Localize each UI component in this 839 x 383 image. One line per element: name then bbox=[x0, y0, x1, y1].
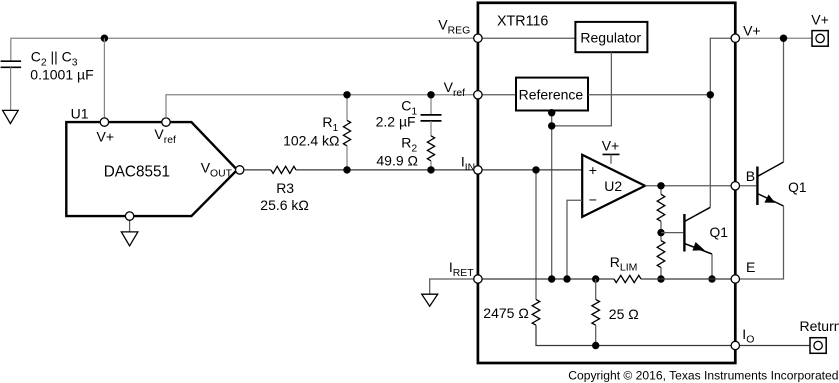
wire: RLIM to E pin bbox=[641, 278, 731, 280]
svg-text:+: + bbox=[589, 162, 597, 178]
resistor RLIM zigzag bbox=[614, 275, 641, 282]
transistor Q1 (internal) collector bbox=[684, 207, 710, 221]
svg-text:IRET: IRET bbox=[449, 259, 474, 279]
resistor R1 zigzag bbox=[343, 120, 350, 146]
junction: U2 output node bbox=[657, 182, 664, 189]
resistor 25 ohm zigzag bbox=[592, 299, 600, 325]
wire: DAC ground stub bbox=[129, 216, 131, 232]
wire: divider bottom lead bbox=[660, 268, 662, 279]
wire: R2 bottom lead bbox=[430, 161, 432, 170]
wire: C1 to R2 bbox=[430, 121, 432, 136]
resistor (lower divider) zigzag bbox=[657, 241, 665, 268]
pin circle: XTR116 IRET bbox=[474, 275, 482, 283]
svg-text:RLIM: RLIM bbox=[610, 254, 638, 274]
ground (below DAC8551) bbox=[121, 232, 138, 246]
op-amp U2 triangle bbox=[582, 155, 645, 217]
wire: 2475 ohm to IO line bbox=[536, 325, 731, 345]
svg-text:R3: R3 bbox=[276, 180, 294, 196]
wire: R1 top lead bbox=[346, 95, 348, 121]
junction: V+ rail / Q1 collector bbox=[780, 35, 787, 42]
wire: IIN pin to op amp + input bbox=[482, 169, 582, 171]
svg-text:DAC8551: DAC8551 bbox=[104, 164, 170, 181]
wire: R3 to XTR116 IIN pin bbox=[296, 169, 478, 171]
svg-text:2.2 µF: 2.2 µF bbox=[376, 113, 416, 129]
wire: R1 bottom lead bbox=[346, 146, 348, 170]
wire: Q1 emitter down and left to E pin bbox=[740, 206, 784, 279]
junction: IIN line / R2 bbox=[427, 166, 434, 173]
terminal V+ supply square bbox=[812, 31, 828, 47]
ground (IRET) bbox=[422, 294, 438, 306]
junction: IIN line / 2475 branch bbox=[532, 166, 539, 173]
terminal V+ supply circle bbox=[816, 34, 824, 42]
svg-text:C2 || C3: C2 || C3 bbox=[31, 49, 78, 69]
wire: V+ drop to DAC8551 bbox=[103, 38, 105, 118]
wire: C1 top lead bbox=[430, 95, 432, 115]
wire: IRET pin to RLIM bbox=[482, 278, 614, 280]
wire: C2/C3 to ground bbox=[10, 67, 12, 110]
pin circle: XTR116 IIN bbox=[474, 166, 482, 174]
resistor R3 zigzag bbox=[271, 166, 296, 173]
svg-text:49.9 Ω: 49.9 Ω bbox=[376, 152, 418, 168]
junction: IRET line / feedback bbox=[563, 275, 570, 282]
wire: V+ pin to supply terminal bbox=[740, 37, 812, 39]
junction: V+ branch / Reference line bbox=[707, 91, 714, 98]
svg-text:XTR116: XTR116 bbox=[497, 14, 548, 30]
terminal Return square bbox=[810, 338, 826, 354]
resistor R2 zigzag bbox=[427, 136, 434, 161]
transistor Q1 (internal) base bar bbox=[683, 214, 685, 252]
pin circle: DAC VOUT bbox=[236, 166, 244, 174]
wire: IRET pin to external ground bbox=[430, 279, 474, 294]
svg-text:VREG: VREG bbox=[438, 16, 470, 36]
svg-text:Q1: Q1 bbox=[710, 225, 728, 240]
block Regulator box bbox=[575, 22, 647, 52]
junction: Vref rail / C1 bbox=[427, 91, 434, 98]
junction: Q1 emitter / IRET line bbox=[708, 275, 715, 282]
wire: Reference right side to V+ branch bbox=[588, 94, 710, 96]
wire: VOUT to R3 bbox=[244, 169, 271, 171]
wire: Reference bottom down to IRET line bbox=[551, 111, 553, 280]
svg-text:V+: V+ bbox=[811, 11, 829, 27]
transistor Q1 (output) base bar bbox=[756, 167, 758, 206]
wire: U2 output to B pin bbox=[645, 185, 731, 187]
svg-text:R2: R2 bbox=[401, 134, 417, 154]
transistor Q1 (output) emitter bbox=[757, 194, 783, 207]
junction: Vref rail / R1 bbox=[343, 91, 350, 98]
svg-text:U1: U1 bbox=[71, 106, 89, 122]
svg-text:−: − bbox=[589, 192, 597, 208]
wire: divider middle bbox=[660, 221, 662, 240]
svg-text:25.6 kΩ: 25.6 kΩ bbox=[260, 197, 309, 213]
wire: 25 ohm top lead bbox=[595, 279, 597, 299]
svg-text:Regulator: Regulator bbox=[580, 30, 641, 46]
ground (below C2/C3) bbox=[3, 110, 19, 123]
wire: divider top lead bbox=[660, 186, 662, 195]
wire: 25 ohm bottom lead bbox=[595, 325, 597, 345]
pin circle: XTR116 B bbox=[731, 182, 739, 190]
svg-text:IO: IO bbox=[742, 326, 754, 346]
wire: B pin to Q1 base bbox=[740, 185, 757, 187]
svg-text:102.4 kΩ: 102.4 kΩ bbox=[283, 133, 339, 149]
wire: VREG pin to Regulator bbox=[482, 37, 575, 39]
op-amp supply bar bbox=[603, 153, 620, 155]
wire: Q1 emitter down to IRET line bbox=[711, 254, 713, 279]
svg-text:2475 Ω: 2475 Ω bbox=[483, 305, 529, 321]
svg-text:25 Ω: 25 Ω bbox=[609, 306, 639, 322]
wire: op-amp supply stub bbox=[610, 154, 612, 163]
wire: Regulator output down-left to reference node bbox=[552, 52, 612, 126]
junction: Reference bottom pin bbox=[548, 109, 555, 116]
wire: IIN branch down to 2475 ohm resistor bbox=[535, 170, 537, 300]
pin circle: XTR116 IO bbox=[731, 341, 739, 349]
pin circle: DAC GND bbox=[125, 212, 133, 220]
junction: IRET line / Reference drop bbox=[548, 275, 555, 282]
junction: IO line / 25 ohm bbox=[592, 342, 599, 349]
svg-text:Return: Return bbox=[800, 318, 839, 334]
junction: IRET line / 25 ohm bbox=[592, 275, 599, 282]
transistor Q1 (internal) emitter arrow bbox=[692, 242, 704, 251]
IC XTR116 outline box bbox=[478, 3, 735, 363]
junction: top rail / DAC V+ branch bbox=[101, 35, 108, 42]
svg-text:V+: V+ bbox=[97, 128, 115, 144]
transistor Q1 (output) emitter arrow bbox=[764, 195, 775, 203]
wire: Vref pin to Reference bbox=[482, 94, 516, 96]
junction: divider mid node bbox=[657, 229, 664, 236]
svg-text:Q1: Q1 bbox=[788, 180, 806, 195]
svg-text:0.1001 µF: 0.1001 µF bbox=[30, 67, 93, 83]
pin circle: XTR116 Vref bbox=[474, 91, 482, 99]
resistor 2475 ohm zigzag bbox=[532, 299, 540, 325]
pin circle: XTR116 VREG bbox=[474, 34, 482, 42]
capacitor C1 plates bbox=[421, 115, 442, 121]
wire: Q1 collector up to V+ rail bbox=[783, 38, 785, 162]
pin circle: XTR116 V+ bbox=[731, 34, 739, 42]
wire: divider mid to Q1 base bbox=[661, 232, 683, 234]
wire: op-amp - input feedback to IRET line bbox=[567, 200, 582, 279]
wire: VREG top rail from C2/C3 to XTR116 VREG pin bbox=[11, 38, 478, 61]
junction: Regulator wire / Reference drop bbox=[548, 122, 555, 129]
transistor Q1 (internal) emitter bbox=[684, 244, 712, 255]
transistor Q1 (output) collector bbox=[757, 162, 783, 177]
capacitor C2 || C3 bbox=[1, 61, 22, 67]
svg-text:V+: V+ bbox=[743, 23, 761, 39]
svg-text:U2: U2 bbox=[604, 178, 622, 194]
wire: V+ pin left and down to Q1 collector bbox=[710, 38, 731, 207]
svg-text:R1: R1 bbox=[322, 114, 338, 134]
pin circle: DAC V+ bbox=[100, 118, 108, 126]
junction: divider bottom / IRET line bbox=[657, 275, 664, 282]
wire: DAC Vref up and right to XTR116 Vref pin bbox=[166, 95, 478, 118]
block Reference box bbox=[516, 78, 588, 111]
svg-text:Reference: Reference bbox=[519, 86, 584, 102]
pin circle: XTR116 E bbox=[731, 275, 739, 283]
svg-text:B: B bbox=[746, 168, 755, 184]
pin circle: DAC Vref bbox=[162, 118, 170, 126]
svg-text:IIN: IIN bbox=[461, 154, 475, 174]
terminal Return circle bbox=[814, 341, 822, 349]
svg-text:Copyright © 2016, Texas Instru: Copyright © 2016, Texas Instruments Inco… bbox=[568, 368, 838, 382]
svg-text:Vref: Vref bbox=[444, 79, 466, 99]
resistor (upper divider) zigzag bbox=[657, 194, 665, 221]
junction: IIN line / R1 bbox=[343, 166, 350, 173]
IC U1 DAC8551 body bbox=[66, 122, 237, 216]
wire: IO pin to Return terminal bbox=[740, 345, 810, 347]
svg-text:E: E bbox=[746, 259, 755, 275]
svg-text:V+: V+ bbox=[602, 138, 620, 154]
